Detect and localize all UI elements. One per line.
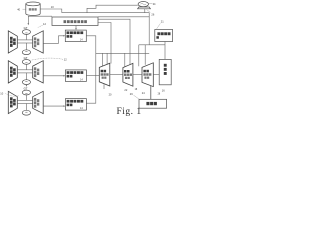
arrow above GT3 [26, 85, 27, 87]
svg-text:29: 29 [130, 92, 133, 96]
svg-text:22: 22 [124, 88, 127, 92]
generator box 16 [159, 59, 171, 84]
top bus wire [62, 13, 149, 45]
svg-text:GT: GT [24, 86, 28, 90]
label 20 [104, 84, 112, 96]
wire GT1 exhaust to HRSG1 [43, 35, 65, 43]
svg-text:24: 24 [142, 91, 145, 95]
svg-text:12: 12 [43, 22, 46, 26]
svg-text:18: 18 [135, 89, 138, 91]
ST1 left stub [96, 75, 100, 77]
wire controller right output 1 [98, 16, 149, 18]
svg-text:21: 21 [161, 20, 164, 24]
ST shafts [110, 74, 159, 76]
controller box [52, 17, 98, 26]
svg-text:12: 12 [64, 57, 67, 61]
wire controller down arrow to HRSG1 [75, 26, 77, 31]
wire GT3 exhaust to HRSG3 [43, 105, 65, 107]
label 10 unit3 [0, 92, 19, 97]
label 29 [130, 92, 139, 99]
gas turbine unit 2 combustor oval [22, 60, 30, 65]
svg-text:10: 10 [51, 5, 54, 9]
gas turbine unit 1 turbine [33, 31, 44, 53]
svg-text:26: 26 [151, 12, 154, 16]
data cylinder 40 [26, 2, 40, 16]
wire GT2 exhaust to HRSG2 [43, 75, 65, 77]
wire from cylinder to top bus [40, 9, 62, 13]
ST3 inlet pipes [139, 45, 145, 67]
gas turbine unit 2 compressor [8, 61, 17, 83]
gas turbine unit 1 combustor oval [22, 30, 30, 35]
HRSG box 2 [65, 70, 86, 82]
HRSG box 1 [65, 30, 86, 41]
wire controller left control to GT1 [28, 16, 53, 25]
wire controller right output 3 to ST1 [98, 23, 111, 64]
svg-text:10: 10 [0, 92, 3, 96]
fuel supply icon 34 [138, 2, 151, 9]
wire ST3 to condenser [150, 86, 152, 100]
feedwater box 21 [155, 30, 173, 42]
label 26 [147, 10, 155, 17]
ST1 inlet pipes [102, 53, 107, 66]
steam turbine ST3 (LP) [142, 63, 153, 87]
svg-text:16: 16 [162, 89, 165, 93]
svg-text:40: 40 [17, 7, 20, 11]
svg-text:GT: GT [24, 26, 28, 30]
label 21 [157, 20, 165, 29]
gas turbine unit 2 shaft [17, 64, 32, 79]
wire controller right output 2 to ST2 pipe [98, 19, 130, 65]
steam turbine ST2 (IP) [123, 63, 133, 86]
label 34 [149, 2, 156, 6]
svg-text:28: 28 [158, 94, 161, 96]
wire icon down to bus [144, 9, 146, 13]
label 12 near controller [38, 22, 47, 28]
condenser box [139, 99, 167, 108]
wire box21 to generator / staircase [139, 42, 165, 60]
svg-text:20: 20 [109, 92, 112, 96]
steam header vertical [86, 36, 96, 103]
svg-text:Fig. 1: Fig. 1 [117, 107, 142, 117]
ST2 inlet pipe [124, 53, 126, 67]
label 12 unit2 [31, 57, 67, 61]
gas turbine unit 2 turbine [33, 61, 44, 83]
wire HRSG2 out [86, 75, 95, 77]
svg-text:34: 34 [153, 2, 156, 6]
gas turbine unit 1 bottom oval [22, 50, 30, 55]
gas turbine unit 1 shaft [17, 34, 32, 49]
gas turbine unit 3 combustor oval [22, 90, 30, 95]
gas turbine unit 3 bottom oval [22, 110, 30, 115]
HRSG box 3 [65, 99, 86, 111]
steam turbine ST1 (HP) [99, 63, 110, 86]
gas turbine unit 1 compressor [8, 31, 17, 53]
steam bus horizontal [96, 52, 149, 54]
svg-text:GT: GT [24, 56, 28, 60]
gas turbine unit 3 turbine [33, 91, 44, 113]
label 40 [17, 7, 25, 11]
gas turbine unit 3 shaft [17, 95, 32, 110]
wire branch up to fuel icon [87, 5, 138, 13]
gas turbine unit 3 compressor [8, 91, 17, 113]
gas turbine unit 2 bottom oval [22, 80, 30, 85]
